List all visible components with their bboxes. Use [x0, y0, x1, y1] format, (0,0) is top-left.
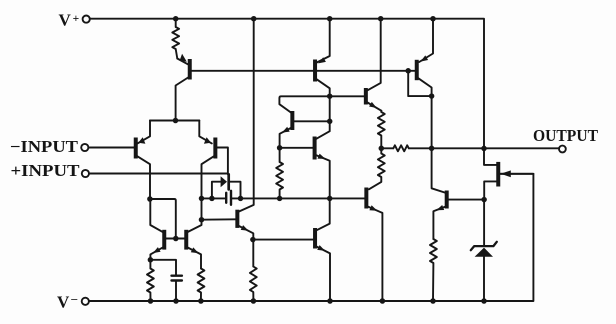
node QB base: [405, 68, 411, 74]
V+ rail: [90, 19, 497, 165]
svg-text:−INPUT: −INPUT: [10, 137, 78, 156]
node rail V+ x254: [251, 16, 257, 22]
wire Th base: [294, 120, 330, 122]
wire QB base L: [408, 71, 431, 96]
transistor Q3 emitter arrow: [204, 137, 211, 144]
OUTPUT terminal: [559, 146, 566, 153]
wire QM1 emitter: [150, 248, 162, 260]
wire Th collector top: [279, 96, 364, 112]
node mirror base: [173, 236, 179, 242]
capacitor C2 bottom plate: [172, 279, 182, 281]
node Ti bus: [327, 196, 333, 202]
zener D2: [475, 248, 493, 257]
wire QA collector: [317, 79, 330, 121]
V- rail: [89, 174, 534, 301]
node QA collector: [327, 93, 333, 99]
wire bus left: [202, 197, 226, 199]
node rail V+ x176: [173, 16, 179, 22]
-INPUT terminal: [81, 144, 88, 151]
transistor Q2 emitter arrow: [138, 137, 145, 144]
resistor R8 horizontal: [393, 145, 409, 151]
wire Ti base: [280, 147, 313, 149]
node Q2 collector mirror: [147, 196, 153, 202]
node rail V- x253: [251, 298, 257, 304]
wire +input: [89, 173, 228, 175]
QM1 emitter arrow: [153, 247, 161, 253]
zener D2 bar: [471, 242, 497, 250]
QA emitter arrow: [318, 57, 326, 63]
transistor Q3: [213, 138, 217, 159]
node QM1 emitter: [148, 257, 154, 263]
V- terminal: [82, 298, 89, 305]
V+ terminal: [83, 16, 90, 23]
wire QM2 emitter: [188, 248, 201, 269]
node bus Tb base: [199, 217, 205, 223]
wire Q2 collector: [137, 156, 150, 199]
transistor Q1 emitter wire: [177, 59, 188, 65]
transistor Q1 emitter arrow: [180, 54, 187, 62]
capacitor C1 left plate: [225, 193, 227, 203]
node R5 bus: [277, 196, 283, 202]
wire Q3 base stub: [217, 148, 228, 175]
wire Q1 base line to QB: [191, 70, 415, 72]
wire -input to Q2 base: [88, 147, 134, 149]
node Tf base zener: [481, 197, 487, 203]
Tg emitter arrow: [501, 170, 511, 177]
wire Te emitter: [368, 207, 382, 301]
wire QM1 collector: [150, 199, 162, 232]
wire diff tail: [150, 120, 199, 122]
transistor Q1: [188, 59, 192, 80]
resistor R2: [147, 260, 154, 301]
diode D1 cathode bar: [227, 174, 230, 189]
zener D2 stem top: [483, 200, 485, 246]
transistor QB: [415, 60, 419, 80]
transistor Tg: [496, 162, 500, 187]
wire Tb emitter: [239, 226, 253, 240]
node rail V- x150: [148, 298, 154, 304]
node output resistor: [429, 146, 435, 152]
wire Td emitter: [368, 103, 382, 111]
wire QB collector: [418, 78, 445, 192]
resistor R5: [276, 148, 283, 199]
QB emitter arrow: [420, 55, 428, 61]
resistor R4: [250, 240, 257, 301]
wire Tc collector: [317, 198, 330, 230]
node Th base: [327, 119, 333, 125]
node Tb emitter: [250, 237, 256, 243]
capacitor C2 top plate: [172, 275, 182, 277]
wire tail right to Q3: [199, 121, 212, 144]
wire Tc emitter: [317, 247, 330, 301]
transistor Q2: [134, 138, 138, 159]
wire Tg bottom L: [484, 181, 496, 199]
wire C2 to rail: [175, 281, 177, 301]
wire bus right: [232, 197, 365, 199]
wire mirror base L: [150, 199, 176, 239]
node diode right: [238, 196, 244, 202]
transistor Tb: [235, 210, 239, 228]
node rail V- x433: [430, 298, 436, 304]
wire Ti collector: [316, 121, 329, 139]
Th emitter arrow: [282, 127, 290, 133]
node rail V- x176: [173, 298, 179, 304]
node rail V- x201: [198, 298, 204, 304]
wire Tf base: [448, 199, 484, 201]
transistor Ti: [313, 137, 317, 160]
wire Th emitter: [280, 128, 291, 148]
Te emitter arrow: [369, 205, 377, 211]
wire mirror bases: [166, 238, 185, 240]
svg-text:–: –: [70, 291, 78, 305]
diode D1 cathode wire: [230, 182, 241, 199]
node rail V+ x433: [430, 16, 436, 22]
node rail V+ x381: [378, 16, 384, 22]
transistor QA: [313, 60, 317, 82]
capacitor C1 right plate: [230, 191, 232, 205]
node rail V- x484: [481, 298, 487, 304]
Tf emitter arrow: [436, 205, 444, 210]
wire tail left to Q2: [138, 121, 151, 144]
svg-text:V: V: [57, 293, 70, 312]
transistor Tf: [445, 191, 449, 209]
zener D2 stem bottom: [483, 257, 485, 301]
transistor Tc: [313, 228, 317, 249]
node rail V+ x330: [327, 16, 333, 22]
node rail V- x382: [380, 298, 386, 304]
wire Q3 collector: [188, 156, 214, 232]
QM2 emitter arrow: [191, 247, 199, 253]
diode D1 anode wire: [212, 182, 221, 199]
Tb emitter arrow: [241, 225, 249, 231]
wire Tb base: [202, 218, 236, 220]
node QB collector tie: [429, 93, 435, 99]
output line: [381, 147, 559, 149]
Td emitter arrow: [369, 102, 377, 108]
node rail V- x330: [327, 298, 333, 304]
transistor QA emitter wire: [317, 19, 330, 63]
svg-text:OUTPUT: OUTPUT: [533, 126, 598, 145]
wire to capacitor C2: [150, 260, 176, 276]
transistor QB emitter wire: [419, 19, 433, 62]
wire Tc base: [253, 239, 314, 241]
wire Ti emitter: [316, 155, 329, 198]
+INPUT terminal: [82, 170, 89, 177]
wire Tb collector to V+: [239, 19, 254, 212]
transistor Te: [364, 188, 368, 209]
resistor R3: [198, 269, 205, 302]
svg-text:V: V: [59, 11, 72, 30]
resistor R6: [378, 111, 385, 149]
node tail: [173, 118, 179, 124]
Ti emitter arrow: [318, 154, 326, 159]
resistor R1: [172, 19, 179, 59]
wire Td collector: [368, 19, 381, 91]
wire Q1 collector: [176, 78, 189, 121]
svg-text:+: +: [73, 13, 80, 25]
node Th emitter: [277, 145, 283, 151]
node output: [481, 146, 487, 152]
node R6 R7: [379, 146, 385, 152]
transistor QM1: [162, 230, 166, 250]
resistor R9: [430, 239, 437, 301]
transistor Th: [290, 111, 294, 130]
node diode left: [209, 196, 215, 202]
node bus Q3col: [199, 196, 205, 202]
wire Tf emitter: [433, 207, 445, 239]
Tc emitter arrow: [317, 245, 325, 251]
transistor Td: [364, 88, 368, 105]
wire Tg emitter: [500, 173, 533, 175]
svg-text:+INPUT: +INPUT: [11, 161, 80, 180]
diode D1: [221, 176, 227, 187]
resistor R7: [369, 148, 385, 189]
transistor QM2: [184, 230, 188, 250]
